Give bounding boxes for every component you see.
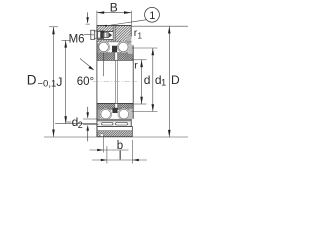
dimension l left extension line [106,146,108,164]
dimension B right arrow [124,11,131,14]
cage nub upper [112,46,117,53]
screw hole top edge line [97,31,113,33]
small dimension arrow above screw head [87,12,89,22]
dimension J bottom extension line [55,123,97,125]
ball upper left [99,42,109,52]
svg-text:J: J [56,75,62,89]
svg-text:1: 1 [161,78,166,88]
outer ring bottom flange hatch band [97,131,132,137]
inner ring lower crosshatch band [97,103,133,109]
callout leader line [106,20,147,26]
dimension d top arrow [140,60,143,67]
ball lower right [119,109,129,119]
dimension l right arrow [133,159,139,161]
dimension J top tick [62,39,71,41]
dimension d line [141,60,143,104]
inner ring left face upper partial line [103,52,105,76]
bore lower line [97,102,133,104]
screw head dark block [101,31,104,38]
svg-text:1: 1 [149,10,155,22]
dimension b left extension line [102,137,104,153]
d2 leader dash left of label [66,121,71,123]
callout circle 1 [145,7,160,22]
svg-text:r: r [134,59,138,71]
bearing top face line [97,24,132,26]
dimension b left arrow [97,149,103,151]
dimension d2 upper arrow [87,107,89,118]
dimension d1 line [152,48,154,112]
bearing left face line [96,25,98,31]
svg-text:1: 1 [138,31,143,40]
dimension d2 extension tick lower [83,123,99,125]
flange bottom notch [100,134,103,137]
screw collar in counterbore [97,31,101,38]
dimension d2 extension tick upper [83,118,99,120]
axis centerline [93,80,137,82]
svg-text:2: 2 [78,120,83,130]
dimension J line [65,40,67,123]
ball lower left [101,109,111,119]
inner ring right face line [132,45,134,118]
dimension d2 lower arrow [86,125,89,131]
dimension D line [168,26,170,137]
ball upper right [119,42,129,52]
dimension d extension top [132,59,147,61]
outer ring right face line lower [130,119,132,127]
dimension d bottom arrow [140,97,143,104]
outer ring lower dark raceway band [97,119,131,121]
callout leader dot [105,25,107,27]
dimension d1 extension top [132,47,158,49]
M6 leader line [84,33,91,36]
split joint gap lower band [115,103,118,109]
inner ring upper crosshatch band [97,52,133,60]
inner ring right face wedge upper [128,45,133,54]
tick under arrow [86,23,90,25]
dimension J top arrow [64,40,67,47]
dimension d1 top arrow [152,48,155,55]
inner ring left wedge lower [97,110,101,119]
dimension l left arrow [101,159,107,161]
dimension B left arrow [97,11,104,14]
seal lozenge right [116,122,128,125]
screw washer [94,31,97,39]
bottom face extension line [44,136,188,138]
dimension D-0,1 top arrow [52,27,55,34]
fixing hole end line pair [112,25,114,42]
dimension D-0,1 bottom arrow [52,130,55,137]
bore upper line [97,59,133,61]
seal upper right gray [127,35,132,45]
dimension D-0,1 top tick [49,26,58,28]
inner ring split joint line pair [115,60,117,103]
svg-text:−0,1: −0,1 [38,78,57,89]
outer ring top band hatch strip above screw hole [97,25,113,31]
flange band outline [97,127,132,137]
outer ring top band hatch strip below screw hole [97,40,113,42]
dimension B extension lines [96,11,98,25]
dimension d1 extension bottom [132,111,158,113]
svg-text:60°: 60° [77,76,94,88]
split joint gap upper band [115,52,118,60]
outer ring top band bottom edge [97,41,131,43]
svg-text:D: D [171,73,180,87]
seal groove band lower [97,122,131,127]
svg-text:M6: M6 [69,34,85,46]
screw tip cone [109,33,112,37]
dimension l line [92,159,147,161]
dimension D extension top [132,25,189,27]
dimension J bottom arrow [64,116,67,123]
svg-text:l: l [119,150,122,162]
dimension D bottom arrow [168,130,171,137]
inner ring right face wedge lower [129,109,133,119]
screw hole bottom edge line [97,39,113,41]
svg-text:D: D [27,73,37,88]
dimension l right extension line [132,140,134,164]
outer ring bottom white band [97,127,132,131]
cage nub lower [112,108,117,113]
screw shank with thread ticks [104,33,109,38]
screw M6 hex head [91,30,95,39]
dimension D-0,1 line [53,27,55,137]
svg-text:d: d [144,73,151,87]
dimension D top arrow [168,26,171,33]
dimension B line [97,12,131,14]
raceway white reliefs around balls [98,41,110,53]
outer ring top band hatch right block [115,25,131,42]
seal lozenge left [102,122,113,125]
dimension d1 bottom arrow [152,104,155,111]
seal upper left gray sliver [97,43,100,52]
dimension b line [90,149,129,151]
60 deg leader line with arrow [80,59,91,68]
svg-text:B: B [110,0,118,14]
dimension d extension bottom [132,103,147,105]
outer ring right face line upper [130,25,132,36]
